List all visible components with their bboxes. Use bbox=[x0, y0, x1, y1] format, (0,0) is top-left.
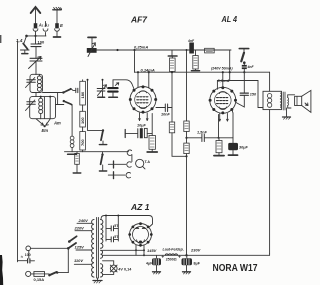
output transformer bbox=[263, 91, 285, 110]
wave coil under switch bbox=[68, 105, 77, 155]
coil in box1 bbox=[37, 75, 41, 92]
mains isolation capacitor bbox=[28, 251, 35, 263]
transformer core bbox=[97, 218, 99, 279]
wire down x=132.5 bbox=[134, 50, 136, 72]
resistor AF7 cathode bbox=[149, 114, 155, 152]
svg-text:700: 700 bbox=[80, 139, 85, 146]
svg-text:8μF: 8μF bbox=[194, 262, 201, 266]
scan smudge left bottom bbox=[0, 255, 3, 285]
AL4 screen wire bbox=[222, 72, 224, 87]
wire box1-box2 bbox=[35, 93, 37, 97]
resistor R3 bbox=[184, 143, 189, 154]
cap 10uF at AF7 cathode bbox=[125, 124, 152, 139]
tone cap 150 bbox=[236, 72, 257, 107]
anode caps branch bbox=[105, 216, 107, 242]
svg-text:Am: Am bbox=[53, 121, 61, 126]
pickup TA bbox=[136, 159, 151, 169]
B- rail bbox=[103, 254, 270, 256]
left rail bottom corner bbox=[18, 260, 27, 262]
mains terminal 2 bbox=[26, 271, 31, 276]
voltage selector riser bbox=[67, 248, 69, 272]
svg-text:0,14mA: 0,14mA bbox=[141, 68, 155, 73]
coil 700 bbox=[80, 127, 86, 152]
field coil Laut-Feldsp bbox=[163, 248, 184, 262]
svg-text:110V: 110V bbox=[74, 258, 83, 263]
tube AF7 bbox=[129, 85, 157, 113]
svg-text:Laut-Feldsp.: Laut-Feldsp. bbox=[163, 248, 184, 252]
svg-text:AF7: AF7 bbox=[130, 16, 147, 25]
tap 240V bbox=[77, 222, 92, 224]
mains terminal 1 bbox=[26, 246, 31, 251]
capacitor 100 (antenna series) bbox=[31, 44, 41, 58]
decoupling trimmer cap on B+ bbox=[87, 37, 97, 56]
speaker cone bbox=[302, 90, 311, 112]
AL4 plate wire bbox=[217, 81, 263, 108]
electrolytic 30uF AL4 bbox=[224, 143, 249, 155]
wire antenna bus y=35.9 bbox=[27, 35, 47, 37]
svg-text:0,15A: 0,15A bbox=[34, 277, 45, 282]
band switch arm 1 bbox=[62, 88, 72, 94]
bus wire y=151.7 bbox=[65, 151, 129, 153]
AZ1 4V winding wire bbox=[103, 249, 145, 251]
fuse 0,15A bbox=[31, 272, 45, 282]
svg-text:240V: 240V bbox=[78, 218, 89, 223]
tuned circuit box 1 bbox=[30, 74, 43, 92]
grid trimmer A bbox=[97, 80, 106, 97]
svg-text:125V: 125V bbox=[75, 245, 85, 250]
wire corner x=229.7 bbox=[229, 50, 231, 81]
left rail wire bbox=[17, 42, 19, 262]
AL4 cathode wire bbox=[232, 110, 233, 143]
rail x=172 bbox=[171, 72, 173, 122]
screen line y=72.2 bbox=[135, 71, 270, 73]
tone switch bbox=[239, 49, 254, 73]
AF7 grid/screen top wires bbox=[137, 72, 139, 87]
svg-text:4nF: 4nF bbox=[187, 39, 195, 43]
corner B+ loop bbox=[269, 253, 271, 255]
phono socket 3 bbox=[126, 172, 130, 177]
junction dot rail bbox=[185, 254, 187, 256]
terminal A1 bbox=[33, 23, 38, 31]
switch link wire bbox=[43, 93, 64, 105]
HV loop wire to AZ1 bbox=[101, 216, 153, 227]
svg-text:4V 0,14: 4V 0,14 bbox=[118, 267, 132, 271]
scan smudge left mid bbox=[0, 35, 1, 43]
switch above bus bbox=[99, 129, 106, 144]
electrolytic blob on B+ bbox=[187, 39, 195, 54]
wave switch riser bbox=[88, 80, 104, 131]
svg-text:Em: Em bbox=[42, 128, 49, 133]
variable capacitor in box2 bbox=[26, 100, 36, 111]
svg-text:A1 A2: A1 A2 bbox=[38, 22, 50, 27]
transformer 4V heater winding bbox=[101, 264, 103, 277]
ground speaker bbox=[283, 108, 291, 119]
terminal A2 bbox=[43, 22, 48, 32]
cap 100 at switch bbox=[71, 88, 78, 92]
svg-text:100: 100 bbox=[25, 253, 31, 257]
svg-text:NORA W17: NORA W17 bbox=[213, 263, 258, 274]
coupling cap to AL4 bbox=[187, 131, 234, 142]
mains switch bbox=[45, 271, 69, 276]
resistor R1 grid leak bbox=[169, 122, 187, 157]
anode cap 1 bbox=[106, 224, 119, 231]
junction dots on B+ bbox=[116, 49, 118, 51]
selector arm upper bbox=[68, 236, 77, 243]
tap 110V bbox=[74, 263, 91, 265]
AF7 heater pins with arrows bbox=[139, 113, 148, 121]
anode cap 2 bbox=[106, 235, 119, 242]
trimmer in box1 bbox=[26, 78, 36, 88]
svg-text:1,4: 1,4 bbox=[16, 38, 23, 43]
coil 100 bbox=[80, 105, 86, 127]
electrolytic cap A bbox=[146, 255, 164, 274]
antenna symbol bbox=[31, 7, 41, 24]
speaker driver bbox=[295, 96, 302, 105]
svg-text:4μF: 4μF bbox=[146, 262, 153, 266]
svg-text:AZ 1: AZ 1 bbox=[130, 203, 150, 212]
socket1-socket2 bracket bbox=[131, 155, 133, 162]
B+ top line y=50 bbox=[88, 49, 231, 51]
terminal E bbox=[54, 23, 61, 37]
svg-text:220V: 220V bbox=[74, 226, 85, 231]
svg-text:(240V 50mA): (240V 50mA) bbox=[211, 67, 233, 71]
selector arm lower bbox=[67, 243, 76, 250]
wave range arrows Am Em bbox=[36, 119, 50, 127]
resistor on B+ horizontal bbox=[205, 48, 215, 53]
svg-text:10μF: 10μF bbox=[137, 124, 147, 128]
speaker voice coil bbox=[288, 95, 295, 108]
svg-text:230V: 230V bbox=[190, 248, 201, 253]
mains wire 1 bbox=[31, 247, 69, 249]
coupling cap AF7 anode bbox=[156, 104, 172, 117]
grid padder B (dark) bbox=[108, 80, 119, 97]
svg-text:10nF: 10nF bbox=[161, 113, 171, 117]
svg-text:1,5nF: 1,5nF bbox=[197, 131, 208, 135]
tube AZ1 bbox=[128, 222, 152, 246]
winding dividers in box2 bbox=[44, 96, 51, 119]
AZ1 filament pins down bbox=[136, 245, 144, 255]
transformer HV secondary bbox=[101, 220, 103, 249]
variable capacitor C-tune1 bbox=[29, 57, 43, 75]
heater wires bbox=[103, 261, 114, 265]
resistor R2 bbox=[184, 121, 189, 132]
svg-text:100: 100 bbox=[80, 117, 85, 124]
svg-text:T.A: T.A bbox=[145, 160, 151, 164]
transformer ground bbox=[93, 278, 102, 283]
coil in box2 bbox=[39, 96, 43, 119]
phono socket 1 bbox=[127, 150, 131, 155]
band switch arm 2 bbox=[63, 100, 73, 106]
AL4 heater pins bbox=[219, 113, 228, 121]
junction dots bbox=[25, 35, 28, 38]
resistor R 0,1 (decoupling) bbox=[168, 50, 177, 72]
coil 180 bbox=[80, 80, 86, 105]
svg-text:100: 100 bbox=[38, 40, 45, 45]
pilot lamp bbox=[110, 265, 132, 272]
svg-text:30μF: 30μF bbox=[239, 146, 249, 150]
phono socket 2 bbox=[127, 162, 131, 167]
B+ wire to output transformer bbox=[269, 72, 271, 91]
switch below bus bbox=[99, 152, 106, 171]
tube AL4 bbox=[209, 86, 237, 114]
wire A1 down bbox=[35, 32, 37, 44]
svg-text:180: 180 bbox=[80, 91, 85, 98]
svg-text:AL 4: AL 4 bbox=[221, 15, 238, 24]
transformer 4V AZ1 winding bbox=[101, 250, 103, 258]
phono coupling cap plate row2 bbox=[108, 161, 126, 168]
tuned circuit box 2 bbox=[30, 97, 56, 119]
coil 50 below bus bbox=[73, 152, 81, 173]
svg-text:150: 150 bbox=[250, 92, 257, 96]
resistor screen divider bbox=[191, 50, 199, 71]
tap 220V bbox=[75, 230, 92, 232]
junction dots on screen line bbox=[137, 71, 139, 73]
AL4 grid wire bbox=[218, 138, 220, 141]
grid wire to AF7 bbox=[113, 80, 134, 89]
electrolytic cap B bbox=[179, 255, 201, 274]
phono coupling cap plate row3 bbox=[108, 172, 125, 179]
rail x=188 bbox=[186, 50, 188, 121]
svg-text:145V: 145V bbox=[147, 248, 157, 253]
power transformer primary bbox=[92, 220, 94, 278]
resistor AL4 cathode bbox=[214, 141, 224, 156]
svg-text:2500Ω: 2500Ω bbox=[166, 257, 177, 261]
tap 125V bbox=[76, 249, 92, 251]
earth counterpoise symbol bbox=[53, 7, 62, 23]
wire transformer down bbox=[269, 110, 271, 254]
svg-text:0,25mA: 0,25mA bbox=[134, 45, 148, 50]
svg-text:4nF: 4nF bbox=[247, 65, 255, 69]
switch to chassis bbox=[21, 36, 30, 54]
ground AF7 cathode bbox=[147, 151, 157, 153]
